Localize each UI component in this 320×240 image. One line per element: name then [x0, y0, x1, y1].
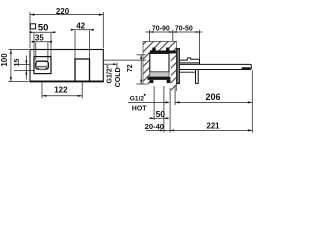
spout side — [180, 64, 252, 69]
svg-text:221: 221 — [206, 121, 220, 130]
dim 206 — [175, 101, 252, 103]
handle blade — [196, 70, 199, 84]
svg-text:35: 35 — [35, 33, 44, 42]
escutcheon side — [177, 49, 179, 84]
aerator front — [38, 66, 47, 69]
dim 220 — [29, 12, 31, 48]
dim 72 — [137, 54, 146, 56]
studs top — [152, 48, 155, 52]
body bottom bar — [148, 77, 171, 80]
wall hatch: left sliver — [143, 51, 150, 85]
wall plate front — [30, 50, 103, 82]
svg-text:COLD: COLD — [115, 67, 122, 87]
svg-text:42: 42 — [76, 22, 85, 31]
body box — [150, 53, 169, 72]
handle lower band — [180, 71, 196, 73]
in-wall body top bar — [150, 51, 177, 54]
plate bottom thick edge — [30, 80, 104, 82]
feet bottom — [150, 80, 154, 83]
svg-text:70-90: 70-90 — [152, 26, 170, 33]
svg-text:G1/2: G1/2 — [130, 95, 145, 102]
svg-text:50: 50 — [38, 22, 49, 33]
dim square50 — [30, 24, 35, 29]
ext lines bottom — [153, 86, 155, 120]
dim 15 — [14, 64, 30, 66]
wall hatch: top band — [143, 41, 177, 50]
gray band — [150, 72, 169, 77]
projection line from front handle top — [104, 59, 147, 61]
handle arm profile — [180, 58, 200, 65]
hot leader — [128, 101, 166, 103]
svg-text:220: 220 — [56, 7, 70, 16]
svg-text:G1/2": G1/2" — [107, 65, 114, 84]
svg-text:122: 122 — [54, 86, 68, 95]
svg-text:100: 100 — [0, 53, 9, 67]
svg-text:206: 206 — [205, 92, 220, 102]
handle front — [75, 59, 90, 81]
dim 100 — [9, 49, 29, 51]
spout front — [36, 61, 49, 69]
svg-text:HOT: HOT — [132, 105, 148, 112]
svg-text:70-50: 70-50 — [175, 26, 193, 33]
aerator tip — [242, 67, 251, 69]
svg-text:50: 50 — [156, 109, 166, 119]
wall hatch: right column — [171, 51, 177, 92]
dim 122 — [41, 82, 43, 98]
svg-text:15: 15 — [14, 59, 21, 67]
spout escutcheon square — [34, 57, 51, 74]
svg-text:72: 72 — [127, 64, 134, 72]
wall hatch outline — [143, 41, 177, 91]
cold leader — [104, 63, 116, 65]
